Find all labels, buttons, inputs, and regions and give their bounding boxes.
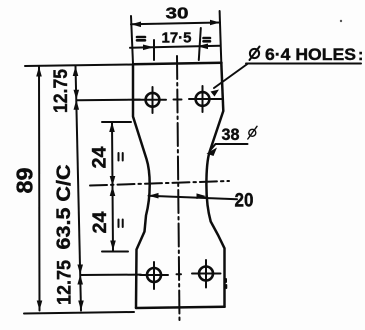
note 38 leader arrow [207, 148, 218, 157]
hole H2 top-right [196, 92, 210, 106]
svg-text::: : [358, 47, 363, 64]
plate outline left edge [133, 64, 150, 308]
dim 24 top arrow up [109, 122, 115, 132]
hole H2 crosshair [189, 86, 222, 112]
dim 30 arrow left [131, 22, 141, 28]
svg-text:89: 89 [12, 168, 38, 194]
speck marks right of plate [225, 279, 227, 288]
note 38 leader line [210, 144, 248, 151]
hole H3 bottom-left [147, 268, 161, 282]
dim 24 bottom arrow up [110, 186, 116, 196]
note 38 dia symbol [248, 126, 257, 139]
dim 89 line [38, 67, 41, 311]
dim 24/24 line [112, 122, 113, 251]
bottom hole row centerline dot [177, 273, 182, 275]
dim 12.75 top arrow down [74, 90, 80, 100]
dim 89 arrow top [36, 67, 42, 77]
dim 30 arrow right [210, 20, 220, 26]
dim 17.5 arrow left [143, 45, 154, 51]
dim 24 bottom arrow down [110, 241, 116, 251]
dim 89 arrow bottom [37, 301, 43, 311]
waist horizontal centerline [90, 181, 229, 186]
dim 24 extension line bottom [102, 251, 128, 253]
dim 30 extension line left [131, 16, 133, 64]
svg-text:17·5: 17·5 [162, 29, 192, 46]
bottom extension line left [24, 312, 134, 314]
bottom hole row extension line left [81, 274, 141, 276]
note dia 6.4 holes symbol [250, 47, 260, 61]
dim 17.5 line [130, 46, 220, 48]
dim 63.5 arrow down [77, 265, 83, 275]
svg-text:30: 30 [166, 6, 189, 23]
dim 12.75 top arrow up [73, 66, 79, 76]
plate outline top edge [133, 63, 222, 64]
svg-text:6·4 HOLES: 6·4 HOLES [265, 45, 356, 64]
note 6.4 underline [246, 63, 361, 65]
dim 12.75/63.5 line [76, 66, 82, 311]
hole H1 crosshair [133, 87, 166, 113]
hole H1 extension line up [153, 40, 155, 60]
plate outline right edge [206, 63, 224, 307]
plate outline bottom edge [136, 307, 225, 308]
vertical centerline [177, 56, 180, 322]
hole H3 crosshair [140, 262, 168, 289]
equal mark right [204, 38, 211, 41]
dim 24 top arrow down [110, 176, 116, 186]
dim 20 line [149, 196, 238, 200]
svg-text:24: 24 [90, 146, 111, 168]
svg-text:12.75: 12.75 [55, 260, 76, 305]
dim 24 extension line top [102, 121, 131, 123]
dim 20 arrow right [197, 193, 207, 199]
equal mark left [137, 37, 145, 40]
hole H1 top-left [146, 93, 160, 107]
note 6.4 leader arrow [211, 90, 220, 97]
dim 12.75 bottom arrow up [77, 275, 83, 285]
svg-text:12.75: 12.75 [51, 69, 72, 113]
dim 20 arrow left [149, 193, 159, 199]
dim 12.75 bottom arrow down [78, 301, 84, 311]
dim 30 extension line right [220, 11, 222, 63]
equal mark bottom rotated [119, 220, 123, 228]
top hole row extension line left [77, 99, 140, 102]
hole H4 bottom-right [199, 267, 213, 281]
speck top right [340, 20, 342, 22]
hole H2 extension line up [199, 28, 201, 60]
svg-text:20: 20 [235, 191, 254, 212]
svg-text:63.5 C/C: 63.5 C/C [54, 164, 75, 249]
top extension line left [25, 65, 133, 67]
hole H4 crosshair [192, 260, 221, 288]
svg-text:38: 38 [222, 125, 240, 144]
svg-text:24: 24 [90, 211, 111, 233]
dim 17.5 arrow right [197, 44, 208, 50]
top hole row centerline dash [174, 99, 182, 101]
dim 30 line [131, 23, 220, 25]
equal mark top rotated [119, 153, 123, 161]
dim 63.5 arrow up [74, 100, 80, 110]
note 6.4 leader line [214, 64, 248, 89]
